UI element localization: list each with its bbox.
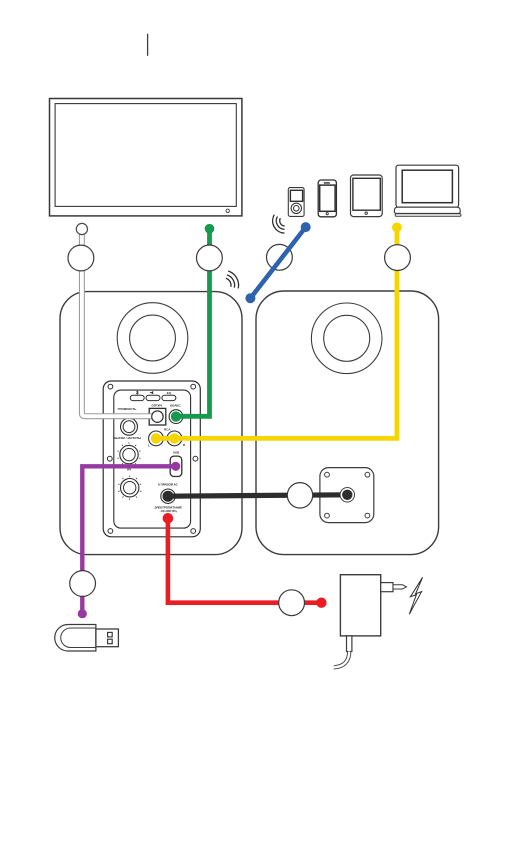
indicator window 2 [146, 395, 160, 400]
TV power LED [226, 209, 229, 212]
USB flash drive connector [96, 629, 119, 647]
volume knob [121, 418, 138, 435]
purple USB wire [82, 466, 177, 613]
panel screw top-left [108, 384, 113, 389]
speaker output port center [163, 491, 174, 502]
RCA jack R [167, 431, 182, 446]
RCA jack L yellow center [151, 433, 161, 443]
RCA jack R yellow center [169, 433, 179, 443]
svg-text:EQ: EQ [167, 391, 172, 395]
svg-text:USB: USB [173, 451, 180, 455]
red power port dot [163, 513, 174, 524]
svg-text:RCA: RCA [164, 427, 171, 431]
optical cable [82, 230, 157, 416]
USB connector contact 1 [108, 632, 113, 637]
wireless waves near iPod [273, 215, 285, 233]
TV outer frame [50, 99, 242, 216]
optical cable connector ring [68, 245, 94, 271]
panel inner plate [114, 390, 191, 528]
svg-text:~100-240В 50Гц: ~100-240В 50Гц [160, 510, 178, 513]
svg-text:КОАКС.: КОАКС. [170, 404, 181, 408]
black wire connector ring [287, 483, 312, 508]
optical port circle over cable [152, 411, 163, 422]
purple plug dot in USB port [171, 462, 180, 471]
plate screw 1 [325, 472, 330, 477]
green wire connector ring [197, 245, 223, 271]
laptop lid [396, 165, 459, 207]
USB connector contact 2 [108, 639, 113, 644]
svg-text:ЭЛЕКТРОПИТАНИЕ: ЭЛЕКТРОПИТАНИЕ [154, 505, 182, 509]
plate terminal center [342, 490, 352, 500]
bass knob [118, 476, 141, 500]
plate screw 3 [325, 513, 330, 518]
svg-text:ОПТИЧ.: ОПТИЧ. [151, 404, 163, 408]
red wire connector ring [279, 590, 305, 616]
indicator icon bluetooth [136, 391, 138, 394]
panel screw mid-right [193, 456, 198, 461]
svg-text:L: L [148, 444, 150, 448]
right speaker terminal plate [320, 468, 374, 523]
power adapter plug base [381, 583, 393, 592]
svg-text:ВЫСОК. ЧАСТОТЫ: ВЫСОК. ЧАСТОТЫ [114, 436, 141, 440]
iPad screen [353, 178, 380, 210]
indicator icon input [150, 391, 153, 394]
purple wire connector ring [70, 571, 96, 597]
blue dot bottom [245, 293, 255, 303]
indicator window 3 [162, 395, 176, 400]
plate screw 4 [365, 513, 370, 518]
right speaker cabinet [256, 291, 439, 555]
iPod click wheel [291, 203, 301, 213]
treble knob [117, 442, 140, 466]
amplifier panel [103, 381, 200, 537]
USB flash drive inner rim [61, 628, 96, 648]
iPod body [288, 188, 304, 217]
purple plug dot bottom [78, 609, 87, 618]
green coaxial wire [178, 229, 210, 417]
coaxial input port [169, 410, 183, 424]
black speaker wire [168, 495, 347, 496]
power adapter cord [334, 652, 349, 668]
left speaker cabinet [60, 292, 242, 555]
panel screw mid-left [107, 456, 112, 461]
iPhone screen [320, 185, 335, 211]
yellow plug dot [392, 223, 402, 233]
plate terminal ring [340, 488, 354, 502]
indicator window 1 [130, 395, 144, 400]
USB flash drive body [55, 625, 96, 652]
panel screw top-right [191, 384, 196, 389]
laptop bottom bar [395, 214, 461, 217]
blue wire connector ring [267, 244, 293, 270]
power adapter body [340, 575, 380, 636]
page crop mark [147, 34, 149, 56]
power adapter plug pin [393, 585, 407, 589]
laptop screen [402, 170, 452, 203]
svg-text:К ПРАВОЙ АС: К ПРАВОЙ АС [158, 483, 179, 487]
yellow RCA wire [156, 227, 397, 438]
USB port [170, 456, 182, 476]
red power wire [168, 518, 322, 602]
panel screw bottom-left [108, 529, 113, 534]
coaxial port green center [171, 411, 181, 421]
iPhone body [318, 180, 336, 217]
yellow wire connector ring [385, 245, 411, 271]
optical input port [149, 408, 166, 425]
power adapter strain relief [347, 636, 352, 652]
blue dot top [301, 222, 311, 232]
optical plug tip [76, 223, 87, 234]
green plug dot [205, 224, 215, 234]
iPad body [351, 175, 383, 217]
svg-text:ГРОМКОСТЬ: ГРОМКОСТЬ [118, 407, 138, 411]
wireless waves near speaker [226, 271, 239, 288]
lightning bolt [409, 577, 422, 614]
right woofer [311, 303, 382, 374]
speaker output port [161, 489, 175, 503]
left woofer [117, 303, 188, 374]
blue bluetooth link [250, 227, 305, 298]
red plug dot right [316, 598, 326, 608]
RCA jack L [149, 431, 164, 446]
iPad home button [365, 212, 367, 214]
iPhone home button [326, 213, 328, 215]
iPhone earpiece [324, 182, 330, 183]
plate screw 2 [365, 472, 370, 477]
iPod screen [290, 190, 302, 201]
TV screen [55, 104, 236, 207]
laptop base [394, 207, 460, 213]
panel screw bottom-right [191, 529, 196, 534]
